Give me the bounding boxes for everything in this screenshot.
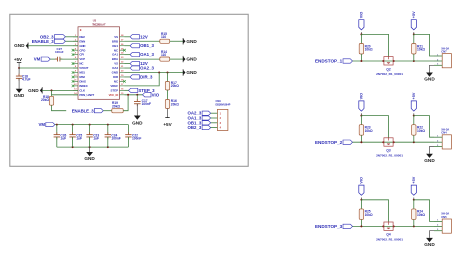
net label ENDSTOP_3 — [315, 224, 353, 229]
wire R15 to ground — [170, 40, 183, 42]
svg-text:MS1: MS1 — [79, 71, 85, 75]
svg-text:GND: GND — [112, 71, 118, 75]
transistor Q4 — [384, 222, 393, 231]
wire VM to C27 — [50, 58, 57, 60]
wire STEP — [125, 89, 129, 91]
net label ENDSTOP_2 — [315, 140, 353, 145]
wire ENABLE_3 to R19 — [103, 110, 112, 112]
wire C17 to ground — [136, 104, 138, 116]
wire VCC_IO to VIO — [125, 94, 143, 96]
transistor Q3 labels — [376, 149, 403, 158]
svg-text:GND: GND — [84, 156, 95, 161]
connector CN7 pins — [434, 54, 442, 65]
pin 1 number CN9 — [220, 112, 222, 115]
svg-text:ENDSTOP_2: ENDSTOP_2 — [315, 140, 343, 145]
wire R19 to VCC_IO net — [123, 95, 128, 111]
node row junctions ENDSTOP_3 — [360, 225, 414, 227]
wire CN9 pin 3 — [211, 122, 218, 124]
svg-text:100nF: 100nF — [111, 137, 120, 141]
no-connect marks left pins — [72, 49, 75, 87]
svg-text:OA2: OA2 — [112, 66, 118, 70]
svg-text:ENDSTOP_3: ENDSTOP_3 — [315, 224, 343, 229]
svg-text:+5V: +5V — [412, 92, 416, 99]
net label VIO — [143, 92, 160, 97]
svg-text:GND: GND — [132, 121, 143, 126]
net label OB1_3 at CN9 — [188, 120, 211, 125]
svg-text:DIR_3: DIR_3 — [140, 74, 153, 79]
svg-text:100nF: 100nF — [142, 102, 151, 106]
svg-text:10kΩ: 10kΩ — [365, 213, 373, 217]
ground GND right row2 — [183, 38, 197, 44]
wire GND to IC pin GND — [28, 45, 78, 47]
wire VIO stem ENDSTOP_3 — [360, 198, 362, 200]
resistor R25 — [359, 209, 373, 220]
wire OA2 — [125, 67, 131, 69]
wire PDN_UART to R18 — [52, 90, 79, 96]
svg-text:VCC_IO: VCC_IO — [109, 93, 119, 97]
svg-text:BRA: BRA — [112, 57, 119, 61]
svg-text:+5V: +5V — [412, 176, 416, 183]
node VIO junction ENDSTOP_3 — [360, 199, 362, 201]
wire CN9 pin 1 — [211, 112, 218, 114]
svg-text:ENDSTOP_1: ENDSTOP_1 — [315, 59, 343, 64]
svg-text:1uF: 1uF — [93, 137, 99, 141]
svg-text:OB1_3: OB1_3 — [140, 43, 154, 48]
power +5V flag bottom — [163, 118, 172, 127]
net label OA1_3 at CN9 — [188, 116, 211, 121]
node R18 top junction — [51, 89, 53, 91]
wire ENABLE_3 to ENN — [65, 40, 78, 42]
net label OA2_3 at CN9 — [188, 111, 211, 116]
wire OB2_3 to DB2 — [65, 36, 78, 38]
power flag +5V ENDSTOP_1 — [411, 11, 416, 30]
wire +5V to R24 — [413, 200, 415, 209]
node +5V junction ENDSTOP_3 — [413, 199, 415, 201]
svg-text:GND: GND — [186, 70, 197, 75]
capacitor C22 — [125, 125, 141, 148]
svg-text:110: 110 — [161, 53, 166, 57]
svg-text:MS2: MS2 — [79, 75, 85, 79]
svg-text:GND: GND — [424, 158, 435, 163]
wire +5V L to pin1 ENDSTOP_2 — [414, 116, 434, 138]
svg-text:ENN: ENN — [79, 39, 85, 43]
wire GND row to ground flag — [125, 71, 184, 73]
net label OB2_3 at CN9 — [188, 125, 211, 130]
svg-text:100nF: 100nF — [55, 50, 64, 54]
svg-text:DB126V-5.08-4P: DB126V-5.08-4P — [216, 103, 231, 106]
svg-text:GND: GND — [79, 44, 85, 48]
net label OA1_3 — [130, 52, 154, 57]
wire VIO stem ENDSTOP_1 — [360, 32, 362, 34]
ground below C18 — [14, 89, 25, 98]
svg-text:2N7002_R1_00001: 2N7002_R1_00001 — [376, 72, 403, 76]
wire column B to R17 — [167, 72, 169, 81]
ground below CN7 — [424, 73, 435, 82]
svg-text:VIO: VIO — [152, 92, 160, 97]
svg-text:PDN_UART: PDN_UART — [79, 93, 94, 97]
wire row ENDSTOP_3 — [353, 225, 435, 227]
wire VS2 to 12V — [125, 63, 131, 65]
wire GND to CLK row — [42, 89, 78, 91]
svg-text:10kΩ: 10kΩ — [365, 48, 373, 52]
node row junctions ENDSTOP_1 — [360, 60, 414, 62]
node junction col B — [167, 71, 169, 73]
connector CN9 labels — [216, 99, 231, 106]
svg-text:20kΩ: 20kΩ — [41, 98, 49, 102]
wire VIO to R23 — [360, 116, 362, 125]
connector CN7 labels — [441, 46, 449, 53]
svg-text:100nF: 100nF — [132, 137, 141, 141]
transistor Q2 — [384, 57, 393, 66]
net label STEP_3 — [129, 88, 156, 93]
wire OA1 — [125, 54, 131, 56]
svg-text:10kΩ: 10kΩ — [417, 129, 425, 133]
node rail junctions — [56, 124, 109, 149]
svg-text:+5V: +5V — [412, 11, 416, 18]
capacitor C23 — [86, 125, 99, 148]
pin 3 number CN9 — [220, 122, 222, 125]
wire +5V to 5VOUT — [19, 67, 78, 69]
svg-text:VIO: VIO — [360, 177, 364, 184]
svg-text:INDEX: INDEX — [79, 84, 87, 88]
capacitor C27 — [55, 47, 64, 62]
pin 4 number CN9 — [220, 127, 222, 130]
pin VCC_IO label — [109, 93, 119, 97]
capacitor C18 — [16, 74, 31, 82]
wire R16 to +5V — [167, 109, 169, 118]
svg-text:2N7002_R1_00001: 2N7002_R1_00001 — [376, 153, 403, 157]
svg-text:BRB: BRB — [112, 39, 118, 43]
connector CN5 body — [442, 219, 451, 233]
connector CN4 body — [442, 135, 451, 149]
resistor R14 — [160, 50, 170, 61]
svg-text:+5V: +5V — [14, 57, 22, 62]
ground below CN4 — [424, 154, 435, 163]
wire BRB to R15 — [125, 40, 160, 42]
schematic sheet border frame — [10, 14, 248, 166]
svg-text:OA1_3: OA1_3 — [140, 52, 154, 57]
net label VM — [34, 57, 51, 62]
svg-text:VCP: VCP — [79, 57, 85, 61]
wire +5V to R21 — [413, 34, 415, 43]
svg-text:Q2: Q2 — [386, 67, 390, 71]
node +5V junction ENDSTOP_2 — [413, 115, 415, 117]
svg-text:20kΩ: 20kΩ — [112, 104, 120, 108]
wire R17 to R16 — [167, 90, 169, 100]
wire +5V L to pin1 ENDSTOP_3 — [414, 200, 434, 222]
svg-text:VS: VS — [114, 62, 118, 66]
svg-text:12V: 12V — [140, 34, 148, 39]
resistor R23 — [359, 125, 373, 136]
no-connect marks right pins — [123, 49, 126, 83]
power flag VIO ENDSTOP_1 — [359, 12, 364, 30]
svg-text:10kΩ: 10kΩ — [365, 129, 373, 133]
net label OB2_3 — [40, 34, 66, 39]
connector CN7 body — [442, 54, 451, 68]
wire VS1 to 12V — [125, 36, 131, 38]
wire +5V stem ENDSTOP_2 — [413, 113, 415, 115]
capacitor C17 — [134, 99, 151, 106]
capacitor C25 — [69, 125, 82, 148]
ground GND flag second — [28, 87, 42, 93]
svg-text:OB1: OB1 — [112, 44, 118, 48]
svg-text:20kΩ: 20kΩ — [171, 84, 179, 88]
net label DIR_3 — [130, 74, 153, 79]
wire C27 to VCP — [60, 58, 78, 60]
wire +5V stem ENDSTOP_3 — [413, 198, 415, 200]
svg-text:CN7: CN7 — [441, 50, 447, 54]
svg-text:GND: GND — [14, 93, 25, 98]
wire VIO to R25 — [360, 200, 362, 209]
resistor R20 — [359, 44, 373, 55]
svg-text:GND: GND — [424, 242, 435, 247]
node VIO junction ENDSTOP_1 — [360, 33, 362, 35]
svg-text:VS: VS — [114, 35, 118, 39]
svg-text:GND: GND — [14, 43, 25, 48]
connector CN5 labels — [441, 212, 449, 219]
connector CN5 pins — [434, 220, 442, 231]
IC U3 pins and pin numbers — [73, 35, 125, 97]
capacitor C26 — [54, 125, 67, 148]
wire R22 to row — [413, 135, 415, 142]
wire VREF to column — [125, 72, 160, 85]
wire VIO stem ENDSTOP_2 — [360, 113, 362, 115]
svg-text:1uF: 1uF — [60, 137, 66, 141]
node junction col A — [158, 71, 160, 73]
resistor R21 — [412, 44, 426, 55]
wire R14 to ground — [170, 58, 183, 60]
svg-text:STEP: STEP — [111, 88, 119, 92]
transistor Q2 labels — [376, 67, 403, 76]
ground GND flag left — [14, 43, 28, 49]
net label VM lower — [38, 122, 54, 127]
op-amp U3 reference label — [92, 19, 106, 26]
resistor R18 — [41, 95, 54, 105]
svg-text:110: 110 — [161, 35, 166, 39]
svg-text:TMC2208-LA-T: TMC2208-LA-T — [92, 23, 106, 26]
wire R25 to row — [360, 219, 362, 226]
power flag VIO ENDSTOP_3 — [359, 177, 364, 195]
power flag +5V ENDSTOP_2 — [411, 92, 416, 111]
wire drain L ENDSTOP_3 — [361, 200, 388, 222]
wire +5V stem ENDSTOP_1 — [413, 32, 415, 34]
ground below capacitor row — [84, 152, 95, 161]
wire VIO net to C17 — [136, 95, 138, 101]
capacitor C24 — [105, 125, 121, 148]
ground GND right row6 — [183, 56, 197, 62]
transistor Q3 — [384, 138, 393, 147]
wire VIO to R20 — [360, 34, 362, 43]
ground below C17 — [132, 116, 143, 126]
connector CN4 pins — [434, 136, 442, 147]
pin 2 number CN9 — [220, 117, 222, 120]
wire R18 to ENABLE_3 — [52, 105, 67, 111]
svg-text:+5V: +5V — [163, 122, 172, 127]
connector CN9 body — [217, 109, 228, 130]
wire rail bottom — [57, 146, 129, 148]
svg-text:CN4: CN4 — [441, 131, 447, 135]
svg-text:Q3: Q3 — [386, 149, 390, 153]
wire +5V to R22 — [413, 116, 415, 125]
net label ENABLE_3 lower — [72, 108, 104, 113]
resistor R15 — [160, 32, 170, 43]
wire R24 to row — [413, 219, 415, 226]
svg-text:10kΩ: 10kΩ — [417, 48, 425, 52]
resistor R19 — [112, 101, 123, 113]
svg-text:DB2: DB2 — [79, 35, 85, 39]
svg-text:GND: GND — [186, 39, 197, 44]
svg-text:2N7002_R1_00001: 2N7002_R1_00001 — [376, 238, 403, 242]
svg-text:OA1: OA1 — [112, 53, 118, 57]
net label 12V — [130, 61, 148, 66]
wire caps to ground — [89, 147, 91, 152]
svg-text:20kΩ: 20kΩ — [171, 102, 179, 106]
ground GND right row9 — [183, 69, 197, 75]
wire VM rail top — [55, 124, 128, 126]
svg-text:DIAG: DIAG — [79, 80, 87, 84]
wire pin3 to ground CN4 — [430, 147, 435, 154]
svg-text:1uF: 1uF — [76, 137, 82, 141]
power flag VIO ENDSTOP_2 — [359, 93, 364, 111]
svg-text:VM: VM — [34, 57, 41, 62]
svg-text:OA2_3: OA2_3 — [140, 66, 154, 71]
svg-text:10kΩ: 10kΩ — [417, 213, 425, 217]
wire pin3 to ground CN7 — [430, 65, 435, 72]
ground below CN5 — [424, 238, 435, 247]
wire pin3 to ground CN5 — [430, 231, 435, 238]
wire CN9 pin 4 — [211, 127, 218, 129]
wire drain L ENDSTOP_2 — [361, 116, 388, 138]
node R19 riser junction — [127, 94, 129, 96]
svg-text:VIO: VIO — [360, 93, 364, 100]
transistor Q4 labels — [376, 233, 403, 242]
svg-text:CPO: CPO — [79, 48, 86, 52]
net label OB1_3 — [130, 43, 154, 48]
node C17 junction — [136, 94, 138, 96]
net label ENABLE_3 — [32, 39, 66, 44]
svg-text:4.7uF: 4.7uF — [22, 78, 31, 82]
svg-text:VREF: VREF — [110, 84, 118, 88]
wire row ENDSTOP_1 — [353, 60, 435, 62]
wire R23 to row — [360, 135, 362, 142]
wire +5V column to C18 — [18, 68, 20, 76]
power +5V flag left — [14, 57, 22, 68]
svg-text:GND: GND — [186, 57, 197, 62]
svg-text:VM: VM — [38, 122, 45, 127]
svg-text:5VOUT: 5VOUT — [79, 66, 88, 70]
svg-text:GND: GND — [424, 77, 435, 82]
svg-text:ENABLE_3: ENABLE_3 — [72, 108, 95, 113]
resistor R22 — [412, 125, 426, 136]
wire CN9 pin 2 — [211, 117, 218, 119]
net label OA2_3 — [130, 66, 154, 71]
node +5V junction — [18, 67, 20, 69]
svg-text:CPI: CPI — [79, 53, 84, 57]
wire BRA to R14 — [125, 58, 160, 60]
svg-text:Q4: Q4 — [386, 233, 390, 237]
power flag +5V ENDSTOP_3 — [411, 176, 416, 195]
wire OB1 — [125, 45, 131, 47]
wire DIR — [125, 76, 131, 78]
wire row ENDSTOP_2 — [353, 141, 435, 143]
svg-text:VIO: VIO — [360, 12, 364, 19]
svg-text:CN5: CN5 — [441, 215, 447, 219]
node VIO junction ENDSTOP_2 — [360, 115, 362, 117]
svg-text:OB2_3: OB2_3 — [188, 125, 202, 130]
connector CN4 labels — [441, 128, 449, 135]
net label ENDSTOP_1 — [315, 59, 353, 64]
IC U3 TMC2208-LA-T body — [78, 27, 120, 100]
wire R20 to row — [360, 54, 362, 61]
wire C18 to ground — [18, 79, 20, 89]
resistor R24 — [412, 209, 426, 220]
resistor R16 — [165, 99, 179, 108]
resistor R17 — [165, 81, 179, 90]
wire R21 to row — [413, 54, 415, 61]
svg-text:GND: GND — [28, 88, 39, 93]
svg-text:ENABLE_3: ENABLE_3 — [32, 39, 55, 44]
wire drain L ENDSTOP_1 — [361, 34, 388, 56]
node row junctions ENDSTOP_2 — [360, 141, 414, 143]
wire +5V L to pin1 ENDSTOP_1 — [414, 34, 434, 56]
node +5V junction ENDSTOP_1 — [413, 33, 415, 35]
net label 12V — [130, 34, 148, 39]
